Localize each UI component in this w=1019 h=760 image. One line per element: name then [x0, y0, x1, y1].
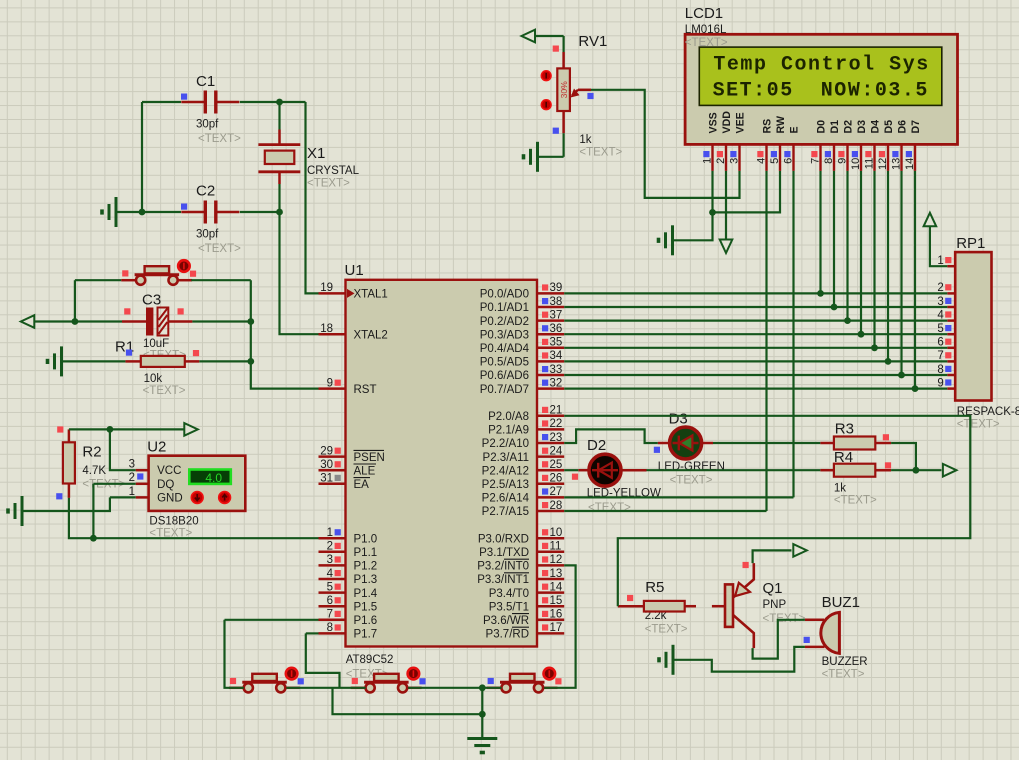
wire P2.2 to D3 jog: [564, 429, 658, 443]
svg-text:RP1: RP1: [956, 235, 985, 252]
state square C3 right: [178, 308, 184, 314]
state square R5: [627, 595, 633, 601]
terminal arrow LCD VDD terminal: [720, 240, 733, 254]
resistor R5 2.2k: [644, 601, 685, 612]
button actuator reset (top): [178, 260, 190, 272]
junction D4 bus node: [871, 344, 878, 351]
svg-text:D7: D7: [910, 120, 922, 134]
state square R1 left: [126, 350, 132, 356]
wire P1.0 long wire: [69, 498, 319, 538]
svg-text:<TEXT>: <TEXT>: [822, 669, 865, 681]
wire VCC rail: [69, 428, 185, 430]
svg-text:RV1: RV1: [578, 33, 607, 50]
push button SW3 (bottom right): [487, 674, 558, 693]
button actuator SW2 (bottom middle): [408, 668, 420, 680]
ground near buzzer: [659, 645, 673, 675]
buzzer BUZ1: [805, 612, 840, 653]
junction D1 bus node: [831, 304, 838, 311]
wire RV1 top horizontal: [535, 35, 564, 37]
U1 right pin numbers: [542, 282, 563, 634]
svg-text:D2: D2: [587, 437, 606, 454]
svg-text:<TEXT>: <TEXT>: [588, 502, 631, 514]
junction R1 right node: [247, 358, 254, 365]
U2 temperature display: [189, 470, 231, 485]
svg-text:P2.3/A11: P2.3/A11: [483, 452, 529, 464]
wire P2.6 to LCD E horizontal: [564, 496, 793, 498]
svg-text:PNP: PNP: [763, 599, 787, 611]
svg-text:D1: D1: [829, 120, 841, 134]
state square BUZ1: [804, 637, 810, 643]
wire LCD D7 vertical: [914, 171, 916, 389]
wire SW2-SW3 link: [408, 687, 501, 689]
wire P2.0 to R5: [564, 416, 970, 606]
svg-text:D2: D2: [843, 120, 855, 134]
potentiometer RV1: [557, 52, 591, 133]
wire P1.6 to SW1: [225, 620, 244, 688]
svg-text:<TEXT>: <TEXT>: [670, 475, 713, 487]
svg-text:P0.5/AD5: P0.5/AD5: [480, 357, 529, 369]
wire link to ground rail: [333, 688, 483, 714]
svg-text:LCD1: LCD1: [685, 5, 723, 22]
svg-text:D4: D4: [870, 120, 882, 134]
wire LCD D6 vertical: [900, 171, 902, 375]
U2 pin numbers: [129, 459, 144, 499]
wire DQ vertical: [92, 484, 94, 538]
svg-text:P3.5/T1: P3.5/T1: [489, 601, 529, 613]
wire U2 GND to ground: [22, 497, 110, 511]
junction ground rail node: [479, 711, 486, 718]
wire ground to C2: [116, 211, 181, 213]
svg-text:BUZ1: BUZ1: [822, 594, 860, 611]
junction R3-R4 node: [913, 467, 920, 474]
junction DQ-P1.0 node: [90, 535, 97, 542]
svg-text:<TEXT>: <TEXT>: [579, 147, 622, 159]
svg-text:P3.0/RXD: P3.0/RXD: [478, 533, 529, 545]
wire SW3 to P3.2: [544, 565, 575, 687]
RV1 up button: [541, 71, 551, 81]
wire buzzer to ground: [673, 647, 805, 672]
state square R2 top: [57, 426, 63, 432]
state square R2 bottom: [56, 493, 62, 499]
svg-text:RW: RW: [775, 116, 787, 133]
wire P2.4 to D2: [564, 469, 578, 471]
wire LCD E vertical: [792, 171, 794, 498]
ground near U2: [8, 496, 22, 526]
LCD pin stubs: [713, 144, 916, 171]
junction VSS-RW node: [709, 209, 716, 216]
svg-text:4.0: 4.0: [205, 471, 222, 485]
resistor pack RP1 body: [955, 252, 991, 400]
svg-text:SET:05 NOW:03.5: SET:05 NOW:03.5: [713, 79, 929, 102]
junction C2-X1: [276, 209, 283, 216]
ground buttons: [467, 739, 497, 753]
wire P0.7 data bus row: [564, 388, 947, 390]
state square R3: [883, 434, 889, 440]
terminal arrow C3 net: [21, 315, 35, 328]
wire P0.2 data bus row: [564, 320, 947, 322]
svg-text:X1: X1: [307, 145, 325, 162]
svg-text:P2.5/A13: P2.5/A13: [482, 479, 529, 491]
resistor R2 leads: [68, 429, 71, 498]
svg-text:C1: C1: [196, 73, 215, 90]
svg-text:P3.7/RD: P3.7/RD: [486, 629, 529, 641]
wire R4 to terminal: [891, 469, 941, 471]
svg-text:D6: D6: [897, 120, 909, 134]
resistor R3 1k: [834, 437, 875, 450]
svg-text:CRYSTAL: CRYSTAL: [307, 165, 360, 177]
svg-text:P3.3/INT1: P3.3/INT1: [477, 574, 529, 586]
svg-text:P1.5: P1.5: [354, 601, 378, 613]
wire P0.1 data bus row: [564, 306, 947, 308]
state square reset (top) left: [122, 270, 128, 276]
wire X1 bottom: [278, 184, 280, 212]
state square C2: [181, 204, 187, 210]
push button SW1 (bottom left): [229, 674, 300, 693]
IC U1 AT89C52 body: [346, 280, 538, 647]
state square SW1 (bottom left) left: [230, 678, 236, 684]
state square C1: [181, 94, 187, 100]
svg-text:P3.4/T0: P3.4/T0: [489, 588, 529, 600]
U1 left pin labels: [354, 289, 388, 641]
svg-text:P0.0/AD0: P0.0/AD0: [480, 289, 529, 301]
svg-text:P1.2: P1.2: [354, 561, 378, 573]
svg-text:E: E: [789, 126, 801, 133]
svg-text:U2: U2: [147, 439, 166, 456]
state square RV1 top: [553, 46, 559, 52]
svg-text:ALE: ALE: [354, 465, 376, 477]
ground near C2: [102, 197, 116, 227]
junction D7 bus node: [912, 385, 919, 392]
junction C3 left node: [72, 318, 79, 325]
state square D2: [572, 474, 578, 480]
svg-text:R2: R2: [82, 444, 101, 461]
transistor Q1 PNP: [725, 563, 754, 648]
wire U2 VCC: [110, 429, 136, 470]
junction D5 bus node: [885, 358, 892, 365]
svg-text:XTAL2: XTAL2: [354, 329, 388, 341]
wire LCD D0 vertical: [819, 171, 821, 294]
svg-text:P3.1/TXD: P3.1/TXD: [479, 547, 529, 559]
svg-text:3: 3: [129, 459, 135, 471]
ground LCD VSS: [659, 225, 673, 255]
wire RV1 bottom vertical: [562, 133, 564, 157]
push button reset (top): [121, 266, 192, 285]
svg-text:P3.6/WR: P3.6/WR: [483, 615, 529, 627]
terminal arrow VCC rail: [184, 423, 198, 436]
wire D2 to R4: [647, 469, 821, 471]
resistor R4 leads: [820, 469, 891, 472]
resistor R2 4.7K: [63, 442, 75, 483]
svg-text:XTAL1: XTAL1: [354, 289, 388, 301]
svg-text:PSEN: PSEN: [354, 452, 385, 464]
ground near R1: [48, 346, 62, 376]
state square R4: [885, 462, 891, 468]
U2 pin stubs: [136, 470, 149, 497]
svg-text:P0.6/AD6: P0.6/AD6: [480, 370, 529, 382]
junction D2 bus node: [844, 317, 851, 324]
svg-text:DS18B20: DS18B20: [149, 516, 198, 528]
wire XTAL2 net: [280, 212, 319, 334]
resistor R1 10k: [141, 356, 185, 367]
state square D3: [654, 447, 660, 453]
state square RV1 bottom: [553, 128, 559, 134]
wire R1 left from ground: [62, 360, 126, 362]
svg-text:30%: 30%: [559, 81, 569, 99]
LED D2 LED-YELLOW: [578, 454, 646, 486]
svg-text:P0.1/AD1: P0.1/AD1: [480, 302, 529, 314]
capacitor C2: [181, 201, 239, 224]
wire LCD D2 vertical: [846, 171, 848, 321]
state square SW1 (bottom left) right: [298, 678, 304, 684]
svg-text:<TEXT>: <TEXT>: [198, 243, 241, 255]
junction C3 right node: [247, 318, 254, 325]
state square SW3 (bottom right) right: [555, 678, 561, 684]
svg-text:P2.0/A8: P2.0/A8: [488, 411, 529, 423]
terminal arrow Q1 emitter power: [793, 544, 807, 557]
svg-text:<TEXT>: <TEXT>: [307, 178, 350, 190]
wire button to corner: [75, 279, 121, 281]
RV1 down button: [541, 100, 551, 110]
wire C3 left / terminal: [27, 320, 122, 322]
svg-text:P1.0: P1.0: [354, 533, 378, 545]
wire P0.3 data bus row: [564, 333, 947, 335]
junction D3 bus node: [858, 331, 865, 338]
wire P0.4 data bus row: [564, 347, 947, 349]
wire X1 top: [278, 102, 280, 130]
svg-text:Temp Control Sys: Temp Control Sys: [713, 54, 929, 77]
RP1 pin numbers and squares: [937, 255, 951, 389]
wire R3 to R4 node: [891, 443, 916, 470]
wire P1.7 stub wire: [306, 632, 319, 634]
svg-text:30pf: 30pf: [196, 119, 219, 131]
svg-text:DQ: DQ: [157, 479, 174, 491]
svg-text:<TEXT>: <TEXT>: [834, 495, 877, 507]
U2 up button: [219, 492, 231, 504]
svg-text:<TEXT>: <TEXT>: [143, 385, 186, 397]
terminal arrow RV1 top terminal: [522, 30, 536, 43]
XTAL1 pin arrow: [347, 289, 355, 298]
wire Q1 collector to buzzer: [753, 620, 805, 659]
wire C3 right: [192, 320, 250, 322]
svg-text:<TEXT>: <TEXT>: [957, 419, 1000, 431]
svg-text:10uF: 10uF: [143, 338, 169, 350]
svg-text:P0.2/AD2: P0.2/AD2: [480, 316, 529, 328]
svg-text:P0.3/AD3: P0.3/AD3: [480, 329, 529, 341]
svg-text:P1.7: P1.7: [354, 629, 378, 641]
state square reset (top) right: [190, 271, 196, 277]
wire Q1 emitter to terminal: [753, 550, 792, 563]
IC U2 DS18B20 body: [149, 456, 246, 511]
resistor R4 1k: [834, 464, 875, 477]
wire LCD D3 vertical: [860, 171, 862, 334]
svg-text:Q1: Q1: [763, 580, 783, 597]
wire LCD D1 vertical: [833, 171, 835, 307]
state square Q1: [743, 562, 749, 568]
wire U2 DQ: [93, 483, 135, 485]
svg-text:P2.2/A10: P2.2/A10: [482, 438, 529, 450]
U1 left pin stubs: [319, 293, 346, 633]
state square SW2 (bottom middle) left: [352, 678, 358, 684]
svg-text:<TEXT>: <TEXT>: [685, 37, 728, 49]
svg-text:P1.4: P1.4: [354, 588, 378, 600]
svg-text:P0.4/AD4: P0.4/AD4: [480, 343, 530, 355]
wire RST net vertical: [251, 280, 319, 388]
junction C1-X1: [276, 99, 283, 106]
wire C2 right to X1: [240, 211, 280, 213]
wire LCD D5 vertical: [887, 171, 889, 362]
wire LCD RS vertical: [765, 171, 767, 511]
svg-text:P2.4/A12: P2.4/A12: [482, 465, 529, 477]
RP1 pin stubs: [947, 266, 955, 388]
state square C3 left: [124, 308, 130, 314]
svg-text:4.7K: 4.7K: [82, 465, 106, 477]
resistor R1 leads: [125, 360, 199, 363]
svg-text:EA: EA: [354, 479, 370, 491]
svg-text:2: 2: [129, 472, 135, 484]
wire LCD RW to VSS: [713, 171, 781, 213]
junction VCC rail tap: [107, 426, 114, 433]
junction D0 bus node: [817, 290, 824, 297]
svg-text:P2.6/A14: P2.6/A14: [482, 493, 530, 505]
U1 left pin numbers: [320, 282, 341, 634]
wire D3 to R3: [713, 442, 820, 444]
svg-text:RS: RS: [762, 119, 774, 134]
state square RV1 wiper: [587, 93, 593, 99]
capacitor C1: [181, 91, 239, 114]
wire LCD D4 vertical: [873, 171, 875, 348]
state square R1 right: [193, 350, 199, 356]
svg-text:R3: R3: [835, 421, 854, 438]
svg-text:VDD: VDD: [721, 111, 733, 134]
crystal X1: [258, 130, 300, 185]
junction D6 bus node: [898, 372, 905, 379]
junction C2-ground: [139, 209, 146, 216]
wire SW1-SW2 link: [286, 687, 365, 689]
wire P1.6 horizontal: [225, 619, 319, 621]
wire P1.7 jog to SW row: [306, 633, 340, 687]
svg-text:VEE: VEE: [735, 112, 747, 133]
svg-text:1k: 1k: [579, 134, 591, 146]
svg-text:RST: RST: [354, 384, 377, 396]
svg-text:D3: D3: [669, 411, 688, 428]
svg-text:1k: 1k: [834, 483, 846, 495]
wire R1 right: [199, 360, 251, 362]
svg-text:U1: U1: [345, 262, 364, 279]
svg-text:C3: C3: [142, 292, 161, 309]
wire ground drop: [481, 688, 483, 739]
button actuator SW1 (bottom left): [286, 668, 298, 680]
wire C1 right to corner: [240, 101, 306, 103]
resistor R3 leads: [820, 442, 891, 445]
svg-text:D5: D5: [883, 120, 895, 134]
terminal arrow R4 output: [943, 464, 957, 477]
push button SW2 (bottom middle): [351, 674, 422, 693]
resistor R5 leads: [618, 605, 725, 608]
wire RV1 top vertical: [562, 36, 564, 52]
capacitor C3: [122, 308, 192, 336]
LCD pin numbers and squares: [701, 151, 916, 170]
U2 down button: [191, 492, 203, 504]
U2 pin labels: [157, 465, 183, 504]
svg-text:VSS: VSS: [708, 112, 720, 133]
svg-text:P3.2/INT0: P3.2/INT0: [477, 561, 529, 573]
button actuator SW3 (bottom right): [544, 668, 556, 680]
wire C1 left: [142, 101, 181, 103]
wire button left vertical: [74, 280, 76, 321]
svg-text:P1.1: P1.1: [354, 547, 378, 559]
junction SW ground node: [479, 684, 486, 691]
svg-text:P2.1/A9: P2.1/A9: [488, 425, 529, 437]
wire LCD VDD drop: [725, 171, 727, 240]
svg-text:<TEXT>: <TEXT>: [198, 133, 241, 145]
state square SW2 (bottom middle) right: [419, 678, 425, 684]
wire XTAL1 net: [306, 102, 319, 293]
svg-text:GND: GND: [157, 493, 183, 505]
state square SW3 (bottom right) left: [488, 678, 494, 684]
svg-text:P1.6: P1.6: [354, 615, 378, 627]
wire LCD VSS to ground: [673, 171, 713, 240]
svg-text:LM016L: LM016L: [685, 24, 727, 36]
svg-text:D0: D0: [816, 120, 828, 134]
svg-text:P1.3: P1.3: [354, 574, 378, 586]
wire RP1 pin1 to power: [930, 227, 947, 267]
svg-text:30pf: 30pf: [196, 229, 219, 241]
LED D3 LED-GREEN: [658, 427, 713, 459]
svg-text:D3: D3: [856, 120, 868, 134]
wire P0.0 data bus row: [564, 292, 947, 294]
svg-text:<TEXT>: <TEXT>: [645, 624, 688, 636]
wire P2.7 to LCD RS horizontal: [564, 510, 766, 512]
svg-text:R5: R5: [645, 579, 664, 596]
wire RV1 bottom to ground: [538, 156, 564, 158]
svg-text:VCC: VCC: [157, 465, 181, 477]
wire left vertical C1-C2: [141, 102, 143, 212]
wire LCD VEE to RV1 wiper: [591, 90, 740, 198]
svg-text:BUZZER: BUZZER: [822, 656, 868, 668]
svg-text:P2.7/A15: P2.7/A15: [482, 506, 529, 518]
ground near RV1: [524, 142, 538, 172]
LCD1 screen: [699, 47, 942, 105]
LCD1 LM016L body: [685, 34, 957, 144]
wire P0.5 data bus row: [564, 360, 947, 362]
wire button right: [191, 279, 251, 281]
terminal arrow RP1 power: [924, 213, 937, 227]
LCD pin name labels: [708, 111, 923, 134]
svg-text:AT89C52: AT89C52: [346, 654, 394, 666]
svg-text:C2: C2: [196, 183, 215, 200]
U1 right pin labels: [477, 289, 529, 641]
U1 right pin stubs: [537, 293, 564, 633]
wire P0.6 data bus row: [564, 374, 947, 376]
svg-text:1: 1: [129, 486, 135, 498]
wire U2 GND stub wire: [110, 496, 136, 498]
svg-text:10k: 10k: [144, 373, 163, 385]
svg-text:P0.7/AD7: P0.7/AD7: [480, 384, 529, 396]
